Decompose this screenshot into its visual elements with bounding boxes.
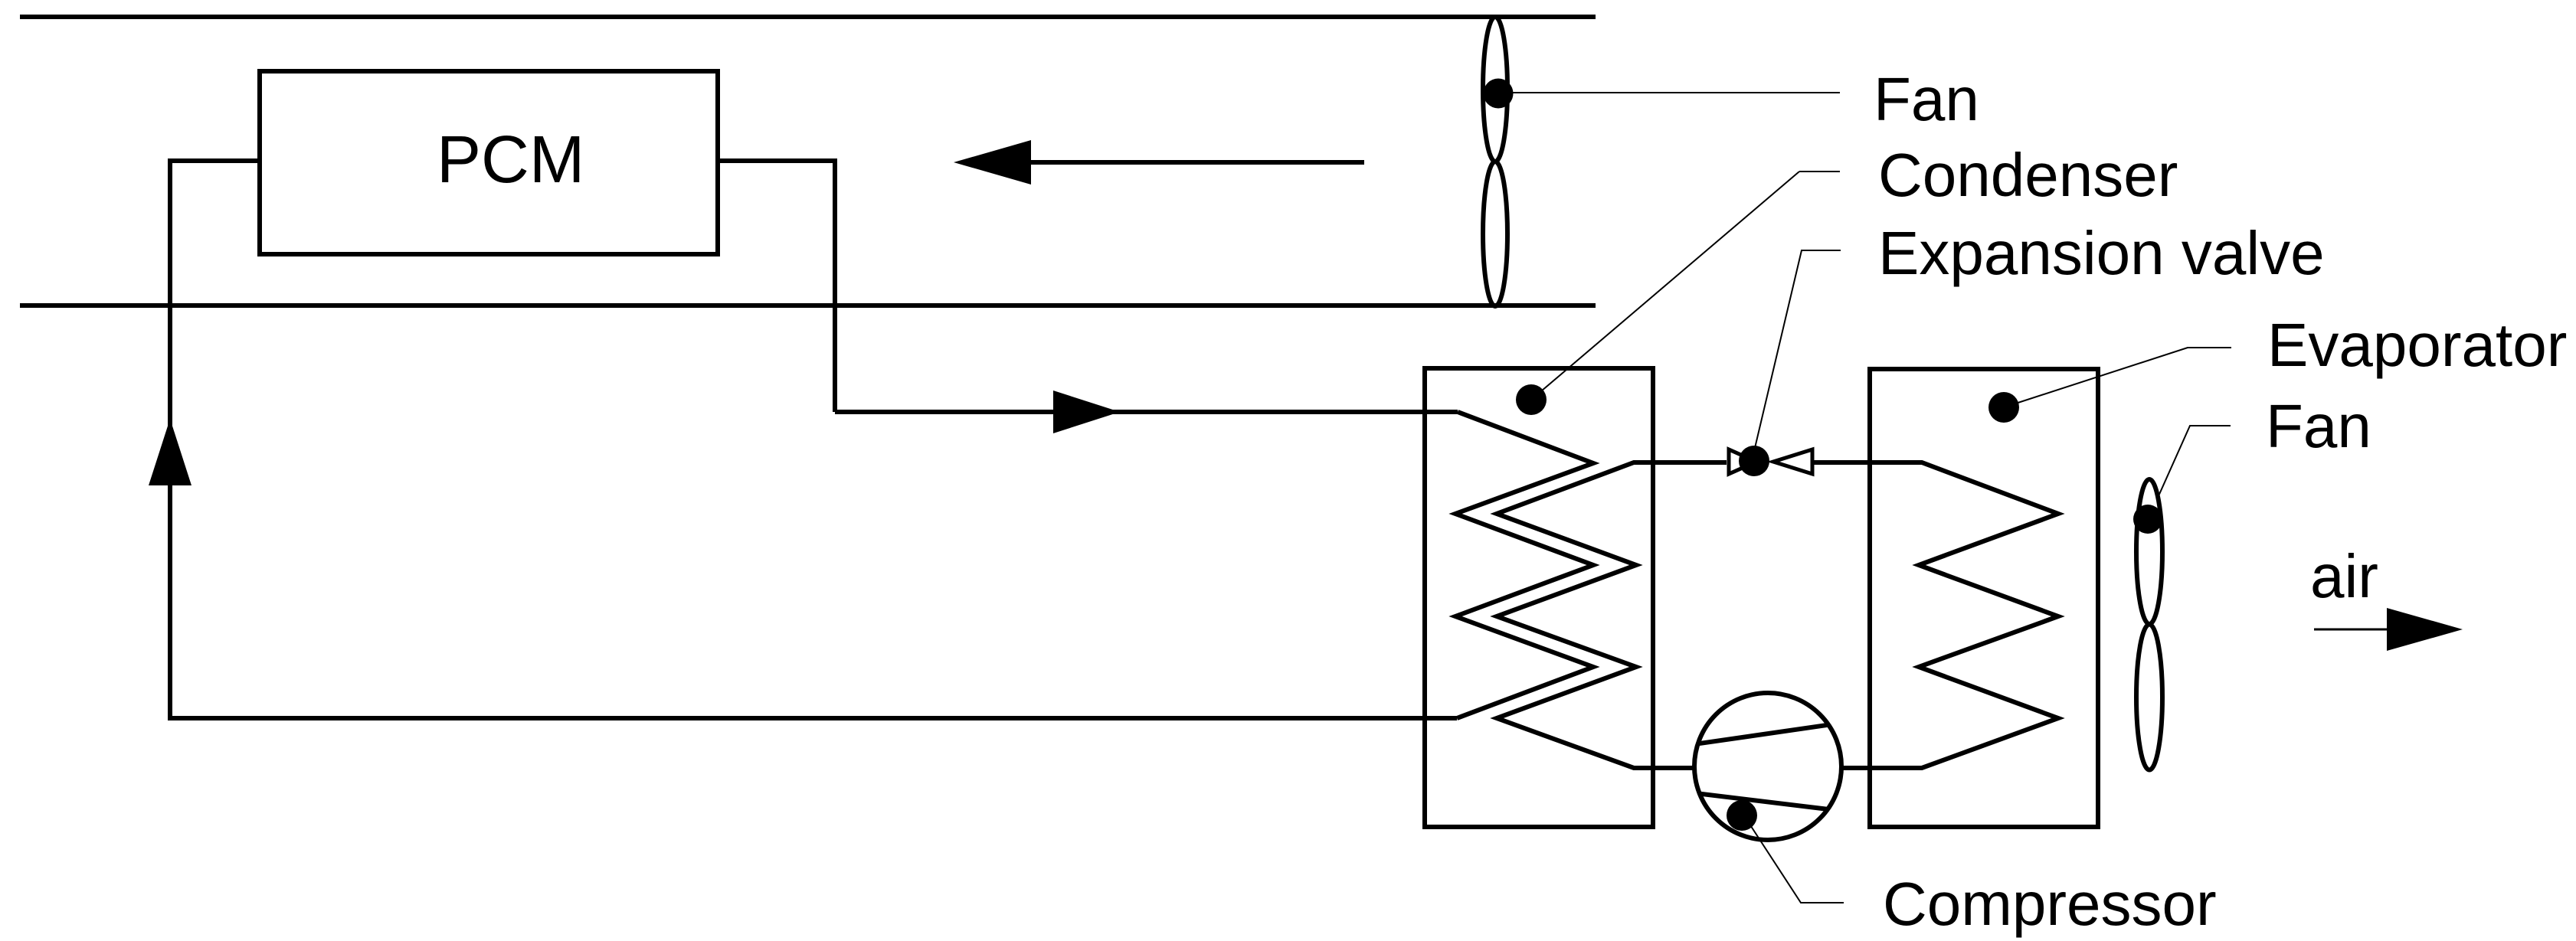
svg-text:Expansion valve: Expansion valve: [1878, 219, 2325, 287]
svg-text:Fan: Fan: [1874, 65, 1979, 133]
svg-text:Fan: Fan: [2266, 392, 2371, 460]
svg-text:Condenser: Condenser: [1878, 141, 2178, 209]
svg-text:air: air: [2310, 542, 2378, 610]
svg-text:PCM: PCM: [437, 123, 584, 197]
svg-text:Evaporator: Evaporator: [2267, 311, 2567, 379]
svg-text:Compressor: Compressor: [1883, 870, 2217, 938]
